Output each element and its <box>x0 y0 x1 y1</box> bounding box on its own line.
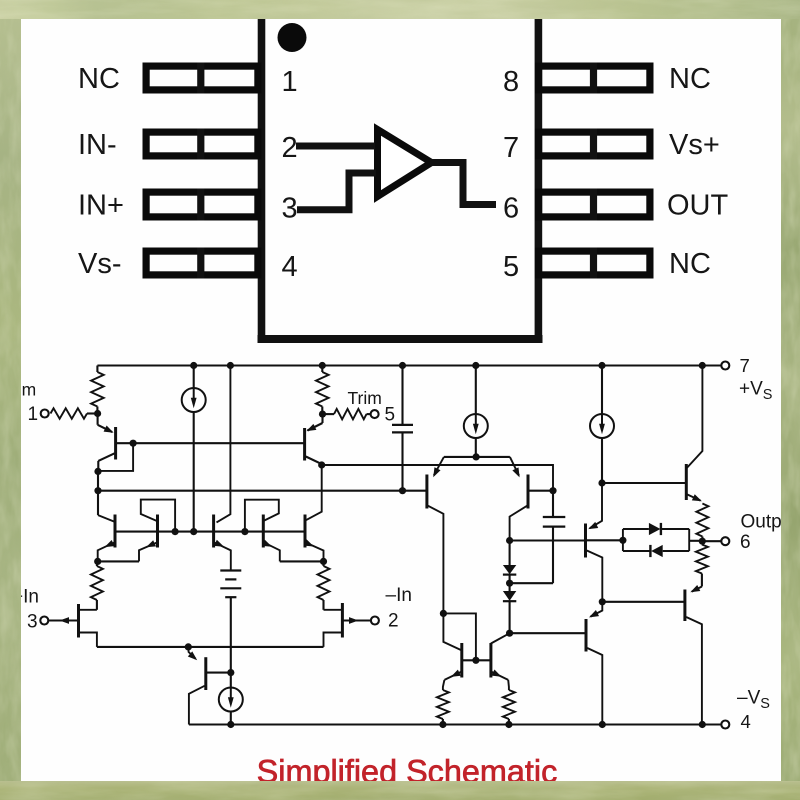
pin 1 box (NC) <box>146 66 258 90</box>
resistor R3 (left emitter resistor) <box>91 566 103 600</box>
common-base bus (y=531.6) <box>115 531 305 533</box>
node tail junction <box>227 669 234 676</box>
capacitor C2 (compensation) <box>552 491 554 517</box>
mirror base bus <box>462 659 491 661</box>
-Vs rail (bottom) <box>189 723 721 725</box>
node A junction (R1/trim) <box>94 410 101 417</box>
pin 7 box (Vs+) <box>539 132 650 156</box>
node B junction <box>130 440 137 447</box>
Q8 emitter wire to pin 3 <box>48 619 79 621</box>
transistor Q12 (2nd stage PNP right) <box>510 457 519 476</box>
pin 4 box (Vs-) <box>146 251 258 275</box>
capacitor C1 <box>399 362 406 369</box>
transistor Q5 (mirror, center) <box>212 515 215 548</box>
transistor Q15 (mirror left) <box>443 613 461 650</box>
Q17 collector to +Vs rail <box>686 366 702 469</box>
Q17 emitter <box>686 494 700 501</box>
wire node E to cap node (y=465) <box>322 465 553 491</box>
node C1-bottom junction <box>399 487 406 494</box>
current source I1 <box>193 366 195 389</box>
terminal pin 5 (trim) <box>371 410 379 418</box>
Q9 base wire to emitter bus <box>324 633 343 647</box>
Q16b emitter <box>491 672 508 680</box>
resistor R7 (output upper) <box>696 504 708 537</box>
IC body right edge <box>535 19 543 343</box>
Q13 to diode box stub <box>586 539 623 541</box>
wire node B wraparound to node C <box>98 443 133 471</box>
pin 8 box (NC) <box>539 66 650 90</box>
wire node E down to Q7 collector <box>305 465 322 521</box>
diode box right edge <box>688 529 690 551</box>
terminal pin 1 (trim) <box>41 410 49 418</box>
terminal pin 2 (-In) <box>371 617 379 625</box>
Q13 collector wire <box>587 551 603 602</box>
node J junction (between diodes) <box>506 580 513 587</box>
Q8 collector wire <box>79 609 97 611</box>
transistor Q10 (bias) <box>188 647 195 659</box>
Q12 base wire <box>528 490 553 492</box>
diode D2 <box>503 591 516 601</box>
terminal pin 7 (+Vs) <box>721 362 729 370</box>
diode D4 (antiparallel, pointing left) <box>623 550 651 552</box>
node E-right junction (Q6/Q7 emitters) <box>280 560 324 562</box>
wire op-amp output to pin6 <box>430 163 496 205</box>
node D junction <box>94 487 101 494</box>
terminal pin 4 (-Vs) <box>721 721 729 729</box>
node C junction <box>94 468 101 475</box>
emitter bus (y=646.9) <box>97 646 324 648</box>
IC body bottom edge <box>258 335 543 343</box>
Q10 collector to -Vs rail <box>189 686 205 725</box>
battery/offset element B1 <box>220 569 241 571</box>
resistor R5 <box>437 690 449 719</box>
Q2 emitter to node E <box>306 457 322 465</box>
diode D1 <box>509 541 511 566</box>
transistor Q18 (output PNP) <box>692 587 702 592</box>
wire battery to tail node <box>230 597 232 687</box>
transistor Q14 (driver PNP lower) <box>591 602 603 617</box>
wire to output terminal <box>702 540 721 542</box>
op-amp U1 triangle <box>378 130 432 197</box>
Q8 base wire to emitter bus <box>79 633 97 647</box>
resistor to pin 5 <box>322 413 334 415</box>
Q18 base wire <box>602 601 685 603</box>
wire node D down to mirror Q3 <box>97 491 99 515</box>
current source I3 <box>601 366 603 415</box>
wire node L to Q16 base <box>602 482 686 484</box>
node F junction <box>185 643 192 650</box>
transistor Q17 (output NPN) <box>685 464 688 500</box>
pin 1 index dot <box>278 23 307 52</box>
Q11 collector wire down <box>427 505 444 613</box>
node H junction (C2 top) <box>549 487 556 494</box>
wire I1 to common-base bus <box>193 412 195 532</box>
pin 2 box (IN-) <box>146 132 258 156</box>
transistor Q9 (right input) <box>341 603 344 638</box>
node M junction (diode box left) <box>619 537 626 544</box>
wire pin2 to op-amp inverting input <box>296 143 375 150</box>
wire node I to Q13 base <box>510 539 586 541</box>
transistor Q1 (left input cascode pair) <box>97 414 99 425</box>
node G junction (I2 / Q11 Q12 emitters) <box>473 453 480 460</box>
wire Q1 collector bus (y=443) <box>116 442 305 444</box>
node A' junction (R2/trim) <box>319 411 326 418</box>
Q14 collector to -Vs rail <box>587 648 602 725</box>
Q18 collector to -Vs rail <box>686 617 702 725</box>
resistor R6 <box>503 690 515 719</box>
transistor Q4 (mirror, second) <box>141 500 175 532</box>
transistor Q7 (mirror, rightmost) <box>304 515 307 548</box>
IC body left edge <box>258 19 266 343</box>
node E-left junction (Q3/Q4 emitters) <box>98 560 139 562</box>
Q14 base wire <box>510 632 586 634</box>
transistor Q16b (mirror right) <box>491 633 510 643</box>
terminal pin 6 (output) <box>721 537 729 545</box>
Q15 emitter <box>444 672 461 680</box>
resistor R2 (right trim resistor) <box>321 366 323 373</box>
output node junction <box>699 538 706 545</box>
rail junction dots <box>190 362 197 369</box>
Q1 lower emitter <box>98 453 114 461</box>
resistor R1 (left trim resistor) <box>96 366 98 373</box>
pin 3 box (IN+) <box>146 192 258 217</box>
transistor Q2 (right input cascode) <box>321 414 323 423</box>
transistor Q13 (driver PNP upper) <box>590 483 602 528</box>
node N junction (Q13 collector / Q14) <box>599 598 606 605</box>
Q12 collector wire down <box>510 505 528 540</box>
current source I2 <box>475 366 477 415</box>
resistor to pin 1 <box>51 408 88 418</box>
resistor R8 (output lower) <box>696 545 708 574</box>
wire node O to mirror base <box>443 613 476 660</box>
node E junction (Q2 emitter) <box>318 461 325 468</box>
Q10 base wire <box>206 672 231 674</box>
transistor Q8 (left input) <box>77 604 80 638</box>
wire collector line x=232.6 (rail to Q5) <box>217 366 231 523</box>
node L junction (I3 / Q16 base) <box>598 479 605 486</box>
diode D3 (antiparallel, pointing right) <box>622 529 624 551</box>
node O junction <box>440 610 447 617</box>
wire node C to node D <box>97 471 99 490</box>
wire pin3 to op-amp non-inverting input <box>297 173 376 210</box>
Q9 emitter wire to pin 2 <box>342 619 371 621</box>
node P junction <box>472 657 479 664</box>
Q9 collector wire <box>324 609 343 611</box>
node K junction <box>506 630 513 637</box>
transistor Q6 (mirror, fourth) <box>245 500 279 532</box>
resistor R4 (right emitter resistor) <box>318 566 330 600</box>
current source I4 (tail) <box>219 688 243 712</box>
node I junction (Q12 collector / diodes) <box>506 537 513 544</box>
terminal pin 3 (+In) <box>40 617 48 625</box>
pin 6 box (OUT) <box>539 192 650 217</box>
transistor Q11 (2nd stage PNP left) <box>444 456 510 458</box>
transistor Q3 (mirror, leftmost) <box>98 515 114 522</box>
pin 5 box (NC) <box>539 251 650 275</box>
+Vs rail (top) <box>97 364 721 366</box>
base bus (y=490.7) <box>98 490 427 492</box>
